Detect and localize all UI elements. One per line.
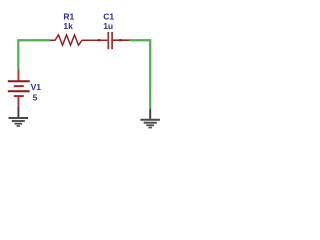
svg-text:R1: R1 — [63, 11, 74, 21]
resistor R1 — [50, 35, 108, 45]
battery V1 — [8, 70, 30, 107]
node junction between R1 and C1 — [98, 39, 100, 41]
svg-text:1u: 1u — [103, 21, 113, 31]
node junction right of C1 — [119, 39, 121, 41]
svg-text:V1: V1 — [31, 82, 42, 92]
svg-text:1k: 1k — [63, 21, 73, 31]
capacitor C1 — [108, 32, 129, 49]
svg-text:C1: C1 — [103, 11, 114, 21]
svg-text:5: 5 — [33, 93, 38, 103]
wire top-right horizontal and right vertical — [129, 40, 150, 109]
ground (bottom right) — [140, 109, 160, 128]
ground (below V1) — [9, 106, 29, 126]
wire top-left horizontal — [18, 40, 50, 70]
